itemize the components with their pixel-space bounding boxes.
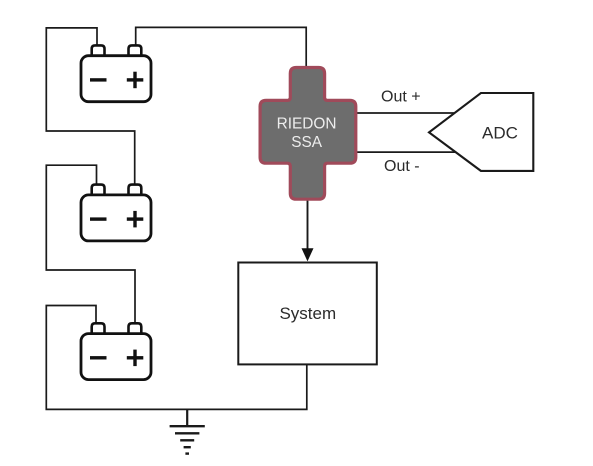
System block — [238, 263, 376, 365]
ground — [170, 409, 205, 453]
battery B3 — [81, 323, 151, 379]
ADC converter — [429, 93, 533, 171]
wire B1+ to RIEDON SSA top — [136, 27, 307, 67]
wire RIEDON SSA to System (arrow shaft) — [307, 200, 309, 252]
wire Out+ — [356, 112, 456, 114]
svg-text:Out -: Out - — [384, 158, 420, 175]
arrowhead into System — [302, 248, 314, 261]
wire B3- to ground bus — [46, 306, 307, 410]
wire B1- to B2+ — [46, 28, 134, 186]
svg-text:SSA: SSA — [291, 134, 323, 151]
wire B2- to B3+ — [46, 165, 135, 323]
shunt U1 RIEDON SSA (cross shape) — [260, 68, 356, 200]
battery B2 — [81, 185, 151, 241]
svg-text:RIEDON: RIEDON — [277, 116, 337, 133]
svg-text:ADC: ADC — [482, 123, 518, 142]
wire Out- — [356, 151, 455, 153]
svg-text:Out +: Out + — [381, 89, 421, 106]
battery B1 — [81, 45, 151, 101]
svg-text:System: System — [279, 304, 336, 323]
